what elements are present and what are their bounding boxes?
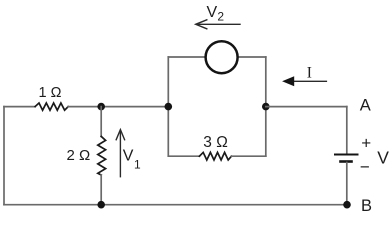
svg-text:A: A bbox=[360, 96, 371, 114]
current arrow I pointing left bbox=[293, 80, 326, 82]
svg-text:I: I bbox=[307, 65, 312, 82]
svg-text:1 Ω: 1 Ω bbox=[39, 85, 62, 101]
node junction left of parallel branch bbox=[165, 103, 173, 111]
wire: top-left stub to resistor R1 bbox=[4, 106, 35, 108]
svg-text:V: V bbox=[377, 147, 389, 167]
resistor R1 1 ohm zigzag bbox=[35, 103, 68, 110]
wire: 2-ohm column lower segment bbox=[100, 175, 102, 205]
wire: left vertical of parallel branch bbox=[167, 57, 169, 156]
wire: battery to bottom rail bbox=[346, 163, 348, 205]
node junction B bbox=[343, 201, 351, 209]
wire: right vertical down to battery bbox=[346, 107, 348, 154]
source U1 circle bbox=[206, 41, 238, 73]
resistor R3 3 ohm zigzag bbox=[199, 152, 231, 160]
wire: main rail right of parallel branch to corner bbox=[266, 106, 347, 108]
wire: bottom rail from left corner to node B bbox=[4, 204, 347, 206]
svg-text:2: 2 bbox=[217, 10, 224, 24]
wire: 3-ohm branch left horizontal bbox=[168, 155, 199, 157]
wire: top branch left horizontal to source bbox=[168, 56, 206, 58]
svg-text:V: V bbox=[207, 4, 218, 21]
resistor R2 2 ohm vertical zigzag bbox=[98, 136, 106, 175]
wire: R1 to node between R1 and parallel branch bbox=[68, 106, 168, 108]
node junction at top of R2 bbox=[97, 103, 105, 111]
voltage arrow V2 pointing left above source bbox=[197, 23, 241, 25]
node junction at bottom of R2 bbox=[97, 201, 105, 209]
wire: 3-ohm branch right horizontal bbox=[231, 155, 265, 157]
wire: left vertical side bbox=[3, 107, 5, 205]
wire: top branch right horizontal from source bbox=[237, 56, 265, 58]
svg-text:V: V bbox=[123, 147, 134, 164]
svg-text:+: + bbox=[361, 133, 371, 152]
battery V long plate bbox=[334, 154, 359, 156]
battery V short plate bbox=[339, 160, 353, 163]
voltage arrow V1 pointing up bbox=[119, 131, 121, 177]
svg-text:2 Ω: 2 Ω bbox=[67, 147, 91, 164]
svg-text:1: 1 bbox=[134, 158, 141, 172]
wire: 2-ohm column upper segment bbox=[100, 107, 102, 137]
svg-text:B: B bbox=[361, 197, 372, 215]
node junction right of parallel branch bbox=[262, 103, 270, 111]
wire: right vertical of parallel branch bbox=[265, 57, 267, 156]
svg-text:−: − bbox=[360, 158, 370, 177]
svg-text:3 Ω: 3 Ω bbox=[203, 134, 228, 151]
